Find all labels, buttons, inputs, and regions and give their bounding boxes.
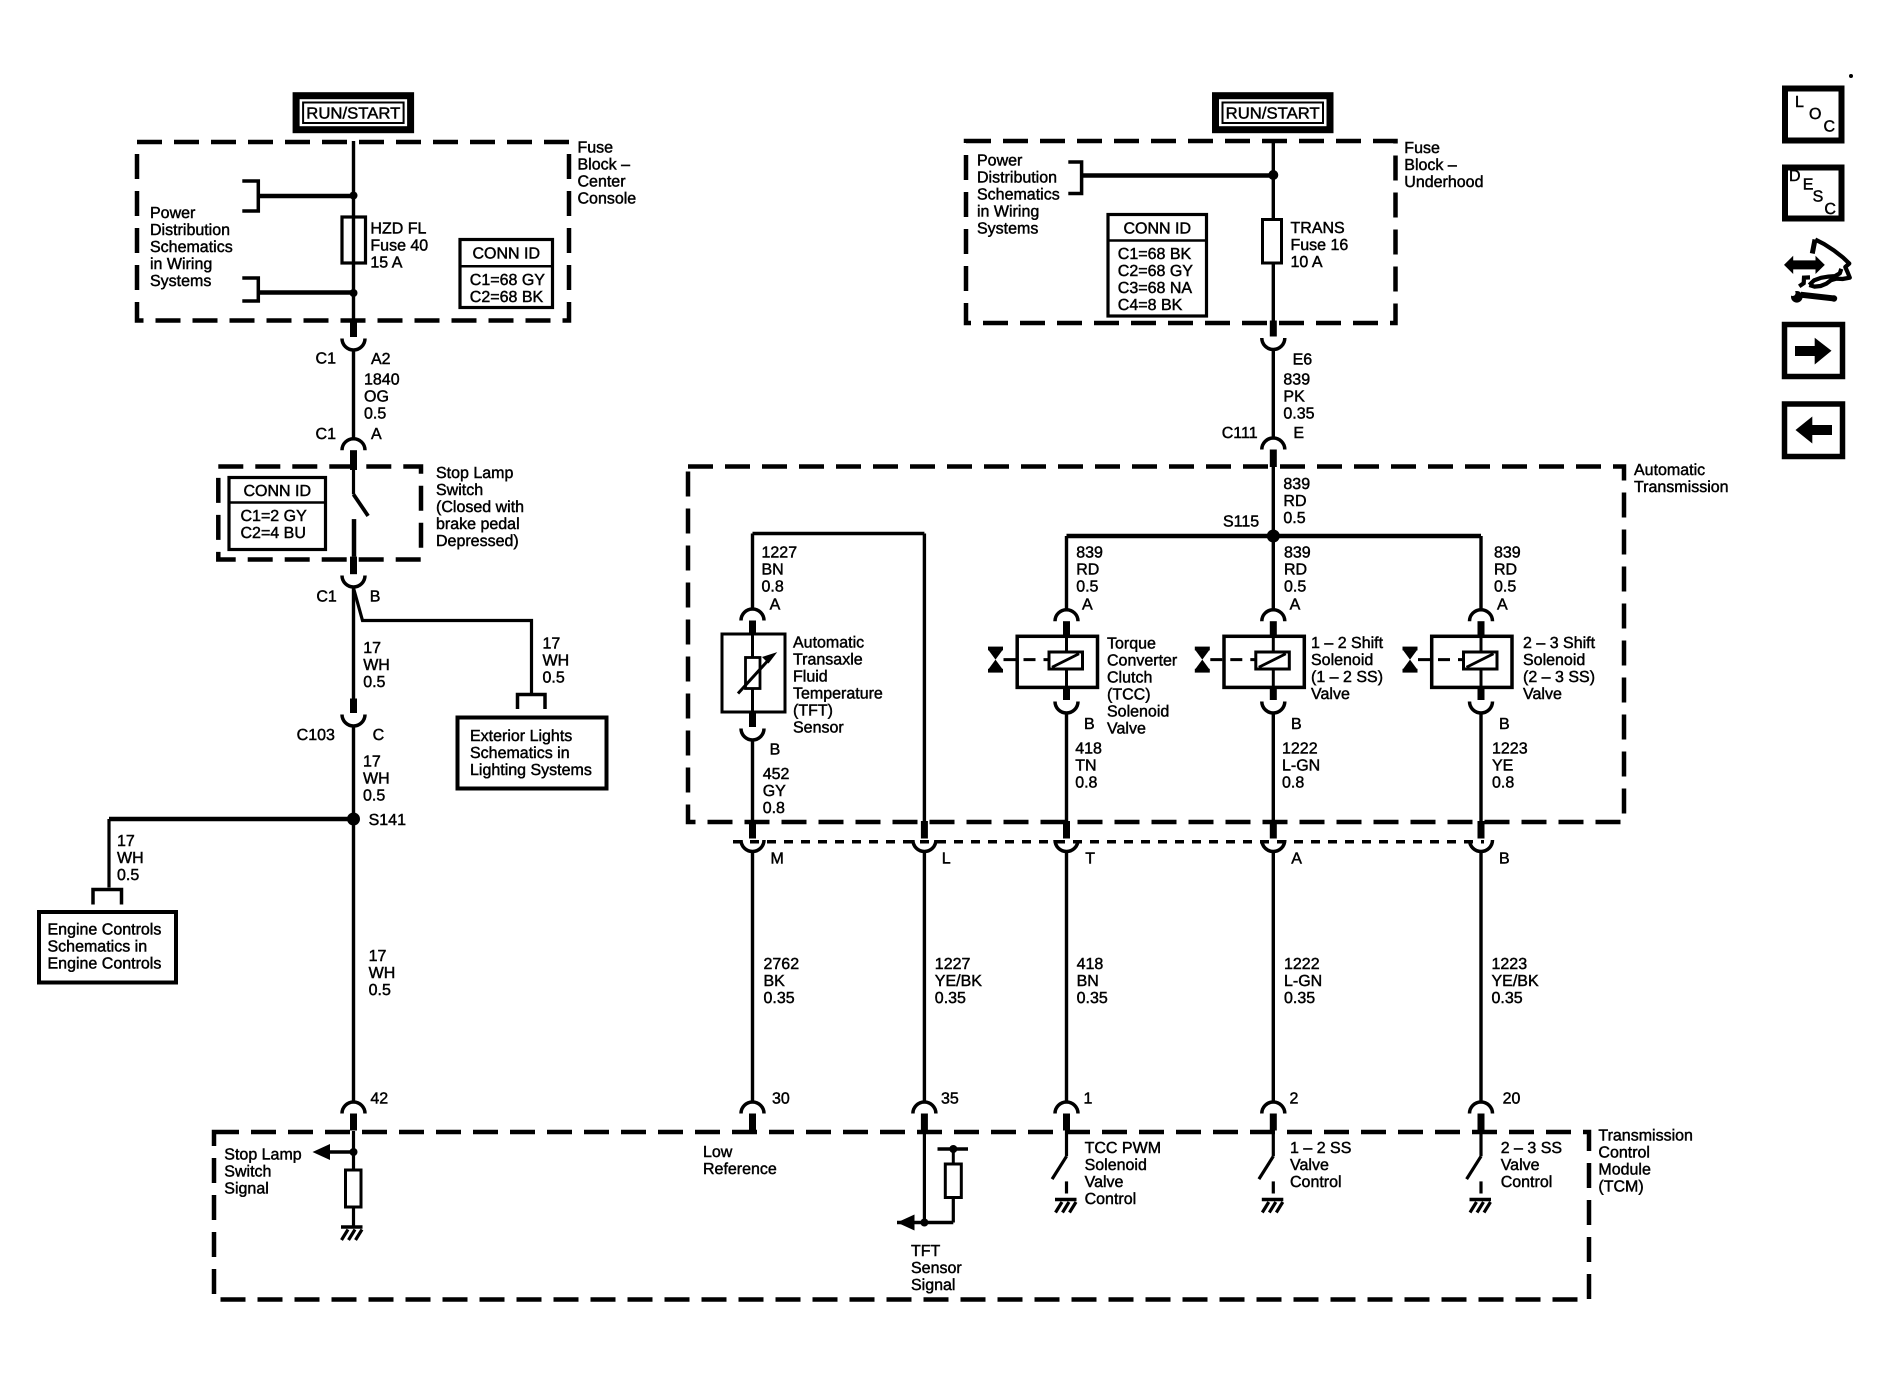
svg-text:1222: 1222 bbox=[1284, 956, 1320, 973]
svg-text:L-GN: L-GN bbox=[1282, 758, 1320, 775]
svg-text:A: A bbox=[1082, 597, 1093, 614]
svg-text:O: O bbox=[1809, 106, 1821, 123]
svg-text:TCC PWM: TCC PWM bbox=[1085, 1140, 1161, 1157]
svg-text:C2=68 BK: C2=68 BK bbox=[470, 289, 544, 306]
svg-text:Exterior Lights: Exterior Lights bbox=[470, 728, 572, 745]
svg-text:RD: RD bbox=[1076, 562, 1099, 579]
svg-text:BN: BN bbox=[762, 562, 784, 579]
svg-text:0.5: 0.5 bbox=[1076, 579, 1098, 596]
svg-text:Automatic: Automatic bbox=[1634, 462, 1705, 479]
svg-text:A: A bbox=[1290, 597, 1301, 614]
svg-text:Control: Control bbox=[1501, 1174, 1553, 1191]
svg-text:BK: BK bbox=[764, 973, 786, 990]
svg-text:(Closed with: (Closed with bbox=[436, 499, 524, 516]
svg-text:B: B bbox=[1499, 851, 1510, 868]
svg-text:839: 839 bbox=[1284, 545, 1311, 562]
svg-text:A: A bbox=[371, 426, 382, 443]
svg-text:B: B bbox=[370, 589, 381, 606]
svg-text:T: T bbox=[1085, 851, 1095, 868]
svg-text:M: M bbox=[771, 851, 784, 868]
svg-text:C1: C1 bbox=[316, 351, 337, 368]
svg-text:WH: WH bbox=[543, 652, 570, 669]
svg-text:Low: Low bbox=[703, 1144, 733, 1161]
svg-text:C: C bbox=[1824, 119, 1836, 136]
svg-text:L: L bbox=[942, 851, 951, 868]
svg-text:D: D bbox=[1789, 168, 1801, 185]
svg-text:C2=4 BU: C2=4 BU bbox=[241, 525, 306, 542]
svg-text:BN: BN bbox=[1077, 973, 1099, 990]
svg-text:Fuse: Fuse bbox=[1404, 140, 1440, 157]
svg-text:839: 839 bbox=[1283, 372, 1310, 389]
svg-text:Switch: Switch bbox=[436, 482, 483, 499]
svg-text:0.5: 0.5 bbox=[543, 669, 565, 686]
svg-text:Lighting Systems: Lighting Systems bbox=[470, 762, 592, 779]
svg-text:Valve: Valve bbox=[1107, 720, 1146, 737]
svg-text:1 – 2 SS: 1 – 2 SS bbox=[1290, 1140, 1351, 1157]
svg-text:C2=68 GY: C2=68 GY bbox=[1118, 263, 1193, 280]
svg-text:0.35: 0.35 bbox=[764, 990, 795, 1007]
svg-text:Sensor: Sensor bbox=[911, 1260, 962, 1277]
svg-text:Engine Controls: Engine Controls bbox=[48, 922, 162, 939]
svg-text:E6: E6 bbox=[1293, 352, 1313, 369]
svg-text:C103: C103 bbox=[297, 727, 335, 744]
svg-text:Power: Power bbox=[977, 153, 1023, 170]
svg-text:C1: C1 bbox=[316, 426, 337, 443]
svg-text:CONN ID: CONN ID bbox=[243, 483, 311, 500]
svg-text:Center: Center bbox=[578, 174, 627, 191]
svg-text:Temperature: Temperature bbox=[793, 686, 883, 703]
svg-text:Clutch: Clutch bbox=[1107, 669, 1152, 686]
svg-text:0.5: 0.5 bbox=[117, 867, 139, 884]
svg-text:Signal: Signal bbox=[224, 1181, 268, 1198]
svg-text:C: C bbox=[373, 727, 385, 744]
svg-text:Control: Control bbox=[1598, 1145, 1650, 1162]
svg-text:10 A: 10 A bbox=[1291, 254, 1323, 271]
svg-text:0.8: 0.8 bbox=[1075, 775, 1097, 792]
svg-text:C1=68 BK: C1=68 BK bbox=[1118, 246, 1192, 263]
svg-text:B: B bbox=[1291, 716, 1302, 733]
svg-text:418: 418 bbox=[1075, 741, 1102, 758]
svg-text:Transmission: Transmission bbox=[1634, 479, 1729, 496]
svg-text:WH: WH bbox=[117, 850, 144, 867]
svg-text:1227: 1227 bbox=[935, 956, 971, 973]
svg-text:WH: WH bbox=[363, 657, 390, 674]
svg-text:in Wiring: in Wiring bbox=[150, 256, 212, 273]
svg-text:Engine Controls: Engine Controls bbox=[48, 956, 162, 973]
svg-text:0.35: 0.35 bbox=[1283, 406, 1314, 423]
svg-text:Converter: Converter bbox=[1107, 652, 1178, 669]
svg-text:20: 20 bbox=[1503, 1090, 1521, 1107]
svg-text:Fluid: Fluid bbox=[793, 669, 828, 686]
svg-text:Signal: Signal bbox=[911, 1277, 955, 1294]
svg-text:Schematics in: Schematics in bbox=[470, 745, 570, 762]
svg-text:C1=2 GY: C1=2 GY bbox=[241, 508, 308, 525]
svg-text:Torque: Torque bbox=[1107, 635, 1156, 652]
svg-text:0.35: 0.35 bbox=[1077, 990, 1108, 1007]
svg-text:Stop Lamp: Stop Lamp bbox=[436, 465, 513, 482]
svg-text:Automatic: Automatic bbox=[793, 635, 864, 652]
svg-text:1227: 1227 bbox=[762, 545, 798, 562]
svg-text:Switch: Switch bbox=[224, 1164, 271, 1181]
svg-text:WH: WH bbox=[369, 965, 396, 982]
svg-text:Schematics in: Schematics in bbox=[48, 939, 148, 956]
svg-text:A2: A2 bbox=[371, 351, 391, 368]
svg-text:1222: 1222 bbox=[1282, 741, 1318, 758]
svg-text:17: 17 bbox=[363, 640, 381, 657]
svg-text:YE/BK: YE/BK bbox=[1492, 973, 1539, 990]
svg-text:17: 17 bbox=[543, 635, 561, 652]
svg-text:Distribution: Distribution bbox=[977, 170, 1057, 187]
svg-text:Schematics: Schematics bbox=[977, 187, 1060, 204]
svg-text:Sensor: Sensor bbox=[793, 720, 844, 737]
svg-text:Valve: Valve bbox=[1501, 1157, 1540, 1174]
svg-text:C4=8 BK: C4=8 BK bbox=[1118, 297, 1183, 314]
svg-text:2 – 3 Shift: 2 – 3 Shift bbox=[1523, 635, 1596, 652]
svg-text:C1=68 GY: C1=68 GY bbox=[470, 272, 545, 289]
svg-text:Solenoid: Solenoid bbox=[1523, 652, 1585, 669]
svg-text:0.5: 0.5 bbox=[363, 787, 385, 804]
svg-text:RUN/START: RUN/START bbox=[306, 106, 400, 123]
svg-text:Block –: Block – bbox=[578, 157, 631, 174]
svg-text:Valve: Valve bbox=[1085, 1174, 1124, 1191]
svg-text:0.5: 0.5 bbox=[1494, 579, 1516, 596]
svg-text:Module: Module bbox=[1598, 1162, 1651, 1179]
svg-text:Fuse: Fuse bbox=[578, 140, 614, 157]
svg-text:C111: C111 bbox=[1222, 425, 1258, 442]
svg-text:0.5: 0.5 bbox=[1283, 510, 1305, 527]
svg-text:Valve: Valve bbox=[1311, 686, 1350, 703]
svg-text:Fuse 16: Fuse 16 bbox=[1291, 237, 1349, 254]
svg-text:HZD FL: HZD FL bbox=[370, 220, 426, 237]
svg-text:1 – 2 Shift: 1 – 2 Shift bbox=[1311, 635, 1384, 652]
svg-text:OG: OG bbox=[364, 388, 389, 405]
svg-text:Control: Control bbox=[1290, 1174, 1342, 1191]
svg-text:0.8: 0.8 bbox=[762, 579, 784, 596]
svg-text:RD: RD bbox=[1494, 562, 1517, 579]
svg-text:0.35: 0.35 bbox=[935, 990, 966, 1007]
svg-text:PK: PK bbox=[1283, 389, 1305, 406]
svg-text:S115: S115 bbox=[1223, 513, 1259, 530]
svg-text:RD: RD bbox=[1283, 493, 1306, 510]
svg-text:Console: Console bbox=[578, 191, 637, 208]
svg-text:(2 – 3 SS): (2 – 3 SS) bbox=[1523, 669, 1595, 686]
svg-text:(TFT): (TFT) bbox=[793, 703, 833, 720]
svg-text:Power: Power bbox=[150, 205, 196, 222]
svg-text:30: 30 bbox=[772, 1090, 790, 1107]
svg-text:Systems: Systems bbox=[150, 273, 211, 290]
svg-text:0.5: 0.5 bbox=[364, 405, 386, 422]
svg-text:S141: S141 bbox=[369, 812, 406, 829]
svg-text:35: 35 bbox=[941, 1090, 959, 1107]
svg-text:brake pedal: brake pedal bbox=[436, 516, 520, 533]
svg-text:0.35: 0.35 bbox=[1492, 990, 1523, 1007]
svg-text:L: L bbox=[1795, 94, 1804, 111]
svg-text:Solenoid: Solenoid bbox=[1311, 652, 1373, 669]
svg-text:CONN ID: CONN ID bbox=[472, 246, 540, 263]
svg-text:E: E bbox=[1293, 425, 1304, 442]
svg-text:Solenoid: Solenoid bbox=[1107, 703, 1169, 720]
svg-text:Control: Control bbox=[1085, 1191, 1137, 1208]
svg-text:Fuse 40: Fuse 40 bbox=[370, 237, 428, 254]
svg-text:1223: 1223 bbox=[1492, 741, 1528, 758]
svg-text:17: 17 bbox=[363, 753, 381, 770]
svg-text:Depressed): Depressed) bbox=[436, 533, 519, 550]
svg-text:0.5: 0.5 bbox=[1284, 579, 1306, 596]
svg-text:TRANS: TRANS bbox=[1291, 220, 1345, 237]
svg-text:WH: WH bbox=[363, 770, 390, 787]
svg-text:YE/BK: YE/BK bbox=[935, 973, 982, 990]
svg-text:452: 452 bbox=[763, 766, 790, 783]
svg-text:A: A bbox=[1291, 851, 1302, 868]
svg-text:Valve: Valve bbox=[1523, 686, 1562, 703]
svg-text:2: 2 bbox=[1290, 1090, 1299, 1107]
svg-text:L-GN: L-GN bbox=[1284, 973, 1322, 990]
svg-text:CONN ID: CONN ID bbox=[1123, 220, 1191, 237]
svg-text:RUN/START: RUN/START bbox=[1226, 106, 1320, 123]
svg-text:Reference: Reference bbox=[703, 1161, 777, 1178]
svg-text:15 A: 15 A bbox=[370, 254, 402, 271]
svg-text:1223: 1223 bbox=[1492, 956, 1528, 973]
svg-text:0.8: 0.8 bbox=[1492, 775, 1514, 792]
svg-text:1: 1 bbox=[1084, 1090, 1093, 1107]
svg-text:0.8: 0.8 bbox=[763, 800, 785, 817]
svg-text:0.35: 0.35 bbox=[1284, 990, 1315, 1007]
svg-text:(1 – 2 SS): (1 – 2 SS) bbox=[1311, 669, 1383, 686]
svg-text:(TCC): (TCC) bbox=[1107, 686, 1151, 703]
svg-text:0.8: 0.8 bbox=[1282, 775, 1304, 792]
svg-text:A: A bbox=[1497, 597, 1508, 614]
svg-text:GY: GY bbox=[763, 783, 786, 800]
svg-text:C: C bbox=[1824, 201, 1836, 218]
svg-text:S: S bbox=[1813, 188, 1824, 205]
svg-text:Transaxle: Transaxle bbox=[793, 652, 863, 669]
svg-text:RD: RD bbox=[1284, 562, 1307, 579]
svg-text:Valve: Valve bbox=[1290, 1157, 1329, 1174]
svg-text:B: B bbox=[1084, 716, 1095, 733]
svg-text:TN: TN bbox=[1075, 758, 1096, 775]
svg-text:(TCM): (TCM) bbox=[1598, 1179, 1643, 1196]
svg-text:C3=68 NA: C3=68 NA bbox=[1118, 280, 1193, 297]
svg-text:Schematics: Schematics bbox=[150, 239, 233, 256]
svg-text:0.5: 0.5 bbox=[369, 982, 391, 999]
svg-text:A: A bbox=[770, 597, 781, 614]
svg-text:B: B bbox=[770, 741, 781, 758]
svg-text:Block –: Block – bbox=[1404, 157, 1457, 174]
svg-text:YE: YE bbox=[1492, 758, 1513, 775]
svg-text:1840: 1840 bbox=[364, 371, 400, 388]
svg-text:Systems: Systems bbox=[977, 221, 1038, 238]
svg-text:2 – 3 SS: 2 – 3 SS bbox=[1501, 1140, 1562, 1157]
svg-text:839: 839 bbox=[1076, 545, 1103, 562]
svg-text:2762: 2762 bbox=[764, 956, 800, 973]
svg-text:42: 42 bbox=[370, 1091, 388, 1108]
svg-text:TFT: TFT bbox=[911, 1243, 941, 1260]
svg-text:Stop Lamp: Stop Lamp bbox=[224, 1147, 301, 1164]
svg-text:C1: C1 bbox=[316, 589, 337, 606]
svg-text:17: 17 bbox=[117, 833, 135, 850]
svg-text:839: 839 bbox=[1494, 545, 1521, 562]
svg-text:Distribution: Distribution bbox=[150, 222, 230, 239]
svg-text:B: B bbox=[1499, 716, 1510, 733]
svg-text:Underhood: Underhood bbox=[1404, 174, 1483, 191]
svg-text:17: 17 bbox=[369, 948, 387, 965]
svg-text:in Wiring: in Wiring bbox=[977, 204, 1039, 221]
svg-text:Solenoid: Solenoid bbox=[1085, 1157, 1147, 1174]
svg-text:Transmission: Transmission bbox=[1598, 1128, 1693, 1145]
svg-text:418: 418 bbox=[1077, 956, 1104, 973]
svg-text:839: 839 bbox=[1283, 476, 1310, 493]
svg-text:0.5: 0.5 bbox=[363, 674, 385, 691]
